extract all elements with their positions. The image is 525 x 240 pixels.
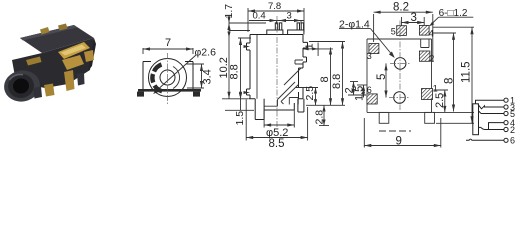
svg-text:8.8: 8.8 <box>331 74 343 89</box>
body top face <box>20 25 94 53</box>
gold bracket (upper strip) <box>58 42 90 59</box>
svg-text:3.4: 3.4 <box>202 69 214 84</box>
foot tab bottom left <box>379 112 389 123</box>
centerline vertical <box>167 53 169 104</box>
dim 8 topview <box>444 33 456 112</box>
dark leg center <box>33 87 42 99</box>
svg-text:5: 5 <box>376 74 388 80</box>
dim 1.5 left <box>354 85 368 101</box>
svg-text:6: 6 <box>510 136 515 146</box>
pad 5 <box>391 26 407 37</box>
dim 7 <box>143 37 193 54</box>
svg-text:9: 9 <box>396 136 402 148</box>
dim 0.4 and 3 <box>249 11 304 24</box>
svg-text:3: 3 <box>367 51 372 61</box>
dim 3.4 <box>186 64 214 88</box>
dim 2.5 right <box>304 86 317 106</box>
terminal 3 <box>504 105 508 109</box>
pin 1 top <box>267 23 283 35</box>
dim 1 right <box>303 43 319 57</box>
barrel boss <box>2 68 43 105</box>
dim 2.5 topview <box>434 90 447 112</box>
label phi2.6 with leader <box>153 47 216 95</box>
hole circle top <box>394 58 406 70</box>
gold strip above barrel <box>26 57 42 66</box>
hole circle bottom <box>394 92 406 104</box>
wire pin6 <box>466 139 504 140</box>
svg-text:2.5: 2.5 <box>434 93 446 108</box>
svg-text:7.8: 7.8 <box>268 1 281 12</box>
dim 5 <box>376 63 388 97</box>
terminal 2 <box>504 127 508 131</box>
right dims extensions <box>433 27 475 123</box>
label 2-phi1.4 <box>339 18 395 58</box>
svg-text:8.2: 8.2 <box>393 2 409 14</box>
centerline circle2 <box>389 97 410 99</box>
pad 6 <box>367 85 377 104</box>
dim 1.7 <box>223 4 235 38</box>
svg-text:3: 3 <box>287 11 292 22</box>
svg-text:6: 6 <box>367 85 372 95</box>
contact pin2 <box>479 127 504 129</box>
foot right <box>193 92 200 97</box>
wire pin1 <box>476 100 504 104</box>
right dims extensions <box>296 42 345 126</box>
svg-text:8.8: 8.8 <box>228 64 240 79</box>
label 6-sq1.2 <box>429 8 473 26</box>
hidden dashed line <box>379 130 411 132</box>
dim 11.5 <box>461 27 474 123</box>
svg-text:2.8: 2.8 <box>313 110 325 125</box>
terminal 1 <box>504 98 508 102</box>
centerline <box>276 16 278 128</box>
inner wall left <box>256 35 258 99</box>
gold bracket (lower lobe) <box>62 55 84 70</box>
side (end) view <box>137 37 216 104</box>
svg-text:1: 1 <box>433 83 438 93</box>
left edge tab arrow <box>244 45 251 48</box>
svg-text:1.5: 1.5 <box>354 86 366 101</box>
dim 8.8 right <box>331 42 344 106</box>
front view <box>218 1 345 150</box>
dark leg right <box>77 73 85 86</box>
flange bar <box>138 89 201 92</box>
svg-text:1.5: 1.5 <box>234 111 246 126</box>
centerline pad5 <box>401 17 403 26</box>
dim 2.8 right <box>313 105 325 125</box>
svg-text:8: 8 <box>319 76 331 82</box>
photo of 3.5mm SMD phone jack <box>2 24 96 105</box>
dim 10.2 <box>218 23 231 99</box>
left foot <box>255 99 264 120</box>
contact pin3 <box>478 105 504 109</box>
wire pin5 <box>479 111 504 114</box>
pin 2 top <box>288 23 304 35</box>
body outline <box>247 35 308 99</box>
dim 8 right <box>319 48 332 106</box>
right foot <box>298 99 304 112</box>
gold leg center <box>64 70 75 91</box>
pad 2 <box>419 51 434 64</box>
svg-text:11.5: 11.5 <box>461 61 473 83</box>
svg-text:0.4: 0.4 <box>253 11 266 22</box>
gold piece right <box>84 50 94 62</box>
pad 1 <box>422 83 438 99</box>
terminal 5 <box>504 111 508 115</box>
dim 2 left <box>344 82 367 96</box>
dim 3 top <box>402 12 425 24</box>
left edge lower tab <box>247 89 251 95</box>
wire pin4 <box>489 123 504 130</box>
dim 8.8 left <box>228 38 242 99</box>
body front face <box>12 38 94 88</box>
dim phi5.2 <box>264 110 294 139</box>
dim 8.5 <box>246 100 307 151</box>
svg-text:1: 1 <box>304 43 316 49</box>
right end face <box>88 38 96 71</box>
gold tabs top rear <box>40 27 50 35</box>
terminal 4 <box>504 121 508 125</box>
notch under pad 4 <box>421 39 429 48</box>
dim 8.2 <box>374 2 433 63</box>
svg-text:2.5: 2.5 <box>304 86 316 101</box>
centerline circle1 <box>390 62 411 64</box>
contact spring <box>264 60 303 106</box>
body square <box>143 62 193 90</box>
contact crescent <box>154 65 162 72</box>
svg-text:3: 3 <box>411 12 417 24</box>
body outline left edge <box>366 39 368 112</box>
svg-text:8.5: 8.5 <box>269 138 285 149</box>
svg-text:φ2.6: φ2.6 <box>195 47 217 59</box>
svg-text:2: 2 <box>429 54 434 64</box>
body outline top edge <box>367 38 432 40</box>
centerline pad4 <box>423 17 425 25</box>
inner hole circle <box>160 70 175 85</box>
barrel stub <box>264 103 294 110</box>
svg-text:8: 8 <box>444 78 456 84</box>
top (PCB footprint) view <box>339 2 474 148</box>
svg-text:7: 7 <box>165 37 171 49</box>
left dims extensions <box>222 23 266 110</box>
shell arc <box>173 67 180 89</box>
dim 7.8 <box>248 1 304 32</box>
schematic symbol <box>466 96 515 146</box>
pad 3 <box>367 44 379 61</box>
foot left <box>137 92 144 97</box>
outer circle <box>149 59 187 97</box>
centerline vertical <box>399 21 401 111</box>
gold foot left <box>44 84 55 97</box>
dim 9 <box>364 118 441 148</box>
svg-text:1.7: 1.7 <box>223 4 235 19</box>
body outline right edge <box>431 39 433 112</box>
svg-text:5: 5 <box>391 27 396 37</box>
pad 4 <box>419 25 433 38</box>
terminal 6 <box>504 138 508 142</box>
body outline bottom edge <box>367 111 432 113</box>
sleeve bar <box>473 104 479 135</box>
foot tab bottom right <box>425 112 435 123</box>
dim 1.5 bottom left <box>234 93 246 126</box>
svg-text:2: 2 <box>510 125 515 135</box>
